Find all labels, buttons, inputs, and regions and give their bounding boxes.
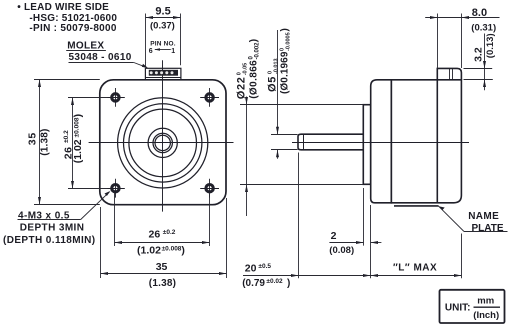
svg-text:(0.79: (0.79 (242, 278, 265, 289)
svg-text:(Ø0.1969: (Ø0.1969 (280, 51, 291, 94)
mounting hole M3 bottom-right (200, 179, 219, 198)
svg-text:(DEPTH 0.118MIN): (DEPTH 0.118MIN) (3, 235, 96, 246)
svg-text:3.2: 3.2 (472, 47, 484, 62)
dim 8.0 line (425, 17, 499, 19)
bottom dim 35 ext lines (100, 207, 102, 278)
left dim text 35 (1.38) rotated (26, 132, 38, 145)
name plate line (394, 205, 439, 207)
arrows 9.5 (146, 16, 154, 19)
svg-text:(Ø0.866: (Ø0.866 (249, 60, 260, 99)
vertical centerline (front) (162, 60, 164, 211)
side centerline (292, 142, 469, 144)
svg-text:(0.31): (0.31) (471, 22, 496, 33)
svg-text:±0.008: ±0.008 (73, 117, 80, 137)
svg-text:(0.13): (0.13) (485, 33, 496, 58)
dia22 dim line (246, 97, 248, 217)
shaft chamfer line (303, 134, 305, 150)
svg-text:35: 35 (156, 261, 168, 273)
arrows bottom 35 (101, 272, 109, 275)
connector pin bar (149, 70, 178, 76)
dim 8.0 ext lines (437, 14, 439, 69)
svg-text:(0.37): (0.37) (150, 21, 175, 32)
4-M3 underline and leader (18, 219, 81, 221)
4-M3 leader arrowhead (105, 191, 111, 196)
arrows 8.0 (outside) (430, 16, 438, 19)
svg-text:(1.38): (1.38) (40, 128, 51, 155)
pin no arrowhead (154, 48, 160, 51)
dim 2 line right tail (371, 242, 382, 244)
dim 2 line left tail (329, 242, 363, 244)
dia22 rotated text (236, 63, 249, 100)
svg-text:(Inch): (Inch) (473, 310, 499, 321)
pin no arrow (155, 49, 171, 51)
svg-text:20: 20 (245, 263, 257, 275)
front flange plate (side) (371, 80, 392, 203)
svg-text:±0.5: ±0.5 (258, 263, 271, 270)
mounting hole M3 bottom-left (106, 179, 125, 198)
svg-text:UNIT:: UNIT: (445, 302, 471, 313)
svg-text:mm: mm (477, 296, 494, 307)
svg-text:NAME: NAME (468, 211, 499, 222)
svg-text:-0.013: -0.013 (273, 58, 279, 74)
svg-text:-0.002: -0.002 (254, 42, 260, 60)
svg-text:8.0: 8.0 (472, 7, 487, 19)
svg-text:-PIN : 50079-8000: -PIN : 50079-8000 (29, 23, 117, 34)
shaft tip ext line (298, 153, 300, 279)
svg-text:9.5: 9.5 (155, 6, 170, 18)
bottom dim 26 line (115, 242, 210, 244)
endbell joint line (436, 80, 438, 203)
name plate leader (439, 206, 464, 231)
svg-text:MOLEX: MOLEX (67, 40, 104, 51)
arrows dim 2 (outside) (356, 241, 364, 244)
svg-text:53048 - 0610: 53048 - 0610 (69, 52, 132, 63)
svg-text:2: 2 (331, 230, 337, 242)
motor flange outline (front view) (100, 80, 226, 205)
arrows dia5 (outside) (276, 127, 279, 135)
bottom dim 35 line (101, 273, 227, 275)
pilot/body circles (118, 98, 208, 188)
svg-text:±0.2: ±0.2 (163, 229, 176, 236)
svg-text:±0.02: ±0.02 (266, 278, 283, 285)
svg-text:PLATE: PLATE (472, 223, 504, 234)
bottom dim 26 ext lines (114, 193, 116, 247)
svg-text:(0.08): (0.08) (329, 245, 354, 256)
svg-text:±0.2: ±0.2 (63, 130, 70, 143)
mounting hole M3 top-right (200, 88, 219, 107)
svg-text:): ) (249, 39, 260, 42)
svg-text:35: 35 (26, 132, 38, 145)
unit box (440, 290, 505, 323)
arrows bottom 26 (115, 241, 123, 244)
dia5 ext lines (side) (271, 134, 298, 136)
dia5 dim line (277, 30, 279, 134)
flange face ext line (370, 205, 372, 278)
svg-text:(1.02: (1.02 (72, 139, 84, 163)
arrows left 35 (38, 80, 41, 88)
svg-text:26: 26 (149, 228, 161, 240)
left dim 35 ext lines (34, 79, 100, 81)
svg-text:-0.0005: -0.0005 (285, 32, 291, 51)
dia22 ext lines (side) (240, 104, 363, 106)
svg-text:Ø5: Ø5 (267, 76, 279, 92)
molex leader arrowhead (142, 64, 148, 68)
connector latch ticks (449, 68, 451, 79)
svg-text:Ø22: Ø22 (236, 76, 248, 99)
arrows 3.2 (outside) (483, 61, 486, 69)
dim text 3.2 rotated (472, 47, 484, 62)
left dim 26 ext lines (68, 97, 108, 99)
svg-text:″L″ MAX: ″L″ MAX (393, 262, 437, 273)
svg-text:(1.38): (1.38) (149, 278, 176, 289)
mounting hole M3 top-left (106, 88, 125, 107)
pilot boss (side) (363, 105, 370, 185)
svg-text:PIN NO.: PIN NO. (150, 40, 176, 47)
svg-text:4-M3 x 0.5: 4-M3 x 0.5 (18, 211, 70, 222)
motor body (side) (391, 80, 461, 203)
rear connector step (side) (437, 68, 461, 79)
bottom chain dim line (243, 275, 462, 277)
arrows left 26 (71, 98, 74, 106)
rear face ext line (461, 234, 463, 279)
shaft (side) (298, 134, 363, 150)
svg-text:): ) (280, 28, 291, 31)
svg-text:6: 6 (149, 48, 153, 55)
svg-text:): ) (181, 244, 185, 256)
svg-text:±0.008: ±0.008 (162, 246, 182, 253)
connector housing (front, top) (145, 68, 181, 80)
arrows bottom chain (291, 274, 299, 277)
left dim 26 line (72, 98, 74, 189)
svg-text:1: 1 (171, 48, 175, 55)
svg-text:(1.02: (1.02 (137, 244, 161, 256)
name plate leader arrowhead (439, 206, 445, 210)
dia5 rotated text (267, 58, 280, 92)
svg-text:-0.05: -0.05 (242, 63, 248, 76)
svg-text:): ) (72, 114, 84, 118)
dim 3.2 ext lines (464, 68, 493, 70)
dim 2 ext line (boss face) (363, 188, 365, 246)
shaft boss circles (148, 128, 177, 157)
dim 9.5 ext lines (145, 14, 147, 67)
left dim 35 line (39, 80, 41, 205)
svg-text:• LEAD WIRE SIDE: • LEAD WIRE SIDE (17, 2, 109, 13)
arrows dia22 (outside) (245, 97, 248, 105)
svg-text:DEPTH 3MIN: DEPTH 3MIN (20, 222, 85, 233)
dim 9.5 line (146, 17, 181, 19)
svg-text:): ) (287, 278, 290, 289)
dim 3.2 line (484, 34, 486, 91)
left dim text 26 (1.02) rotated (62, 130, 74, 159)
horizontal centerline (front) (89, 142, 234, 144)
molex leader (66, 50, 106, 52)
